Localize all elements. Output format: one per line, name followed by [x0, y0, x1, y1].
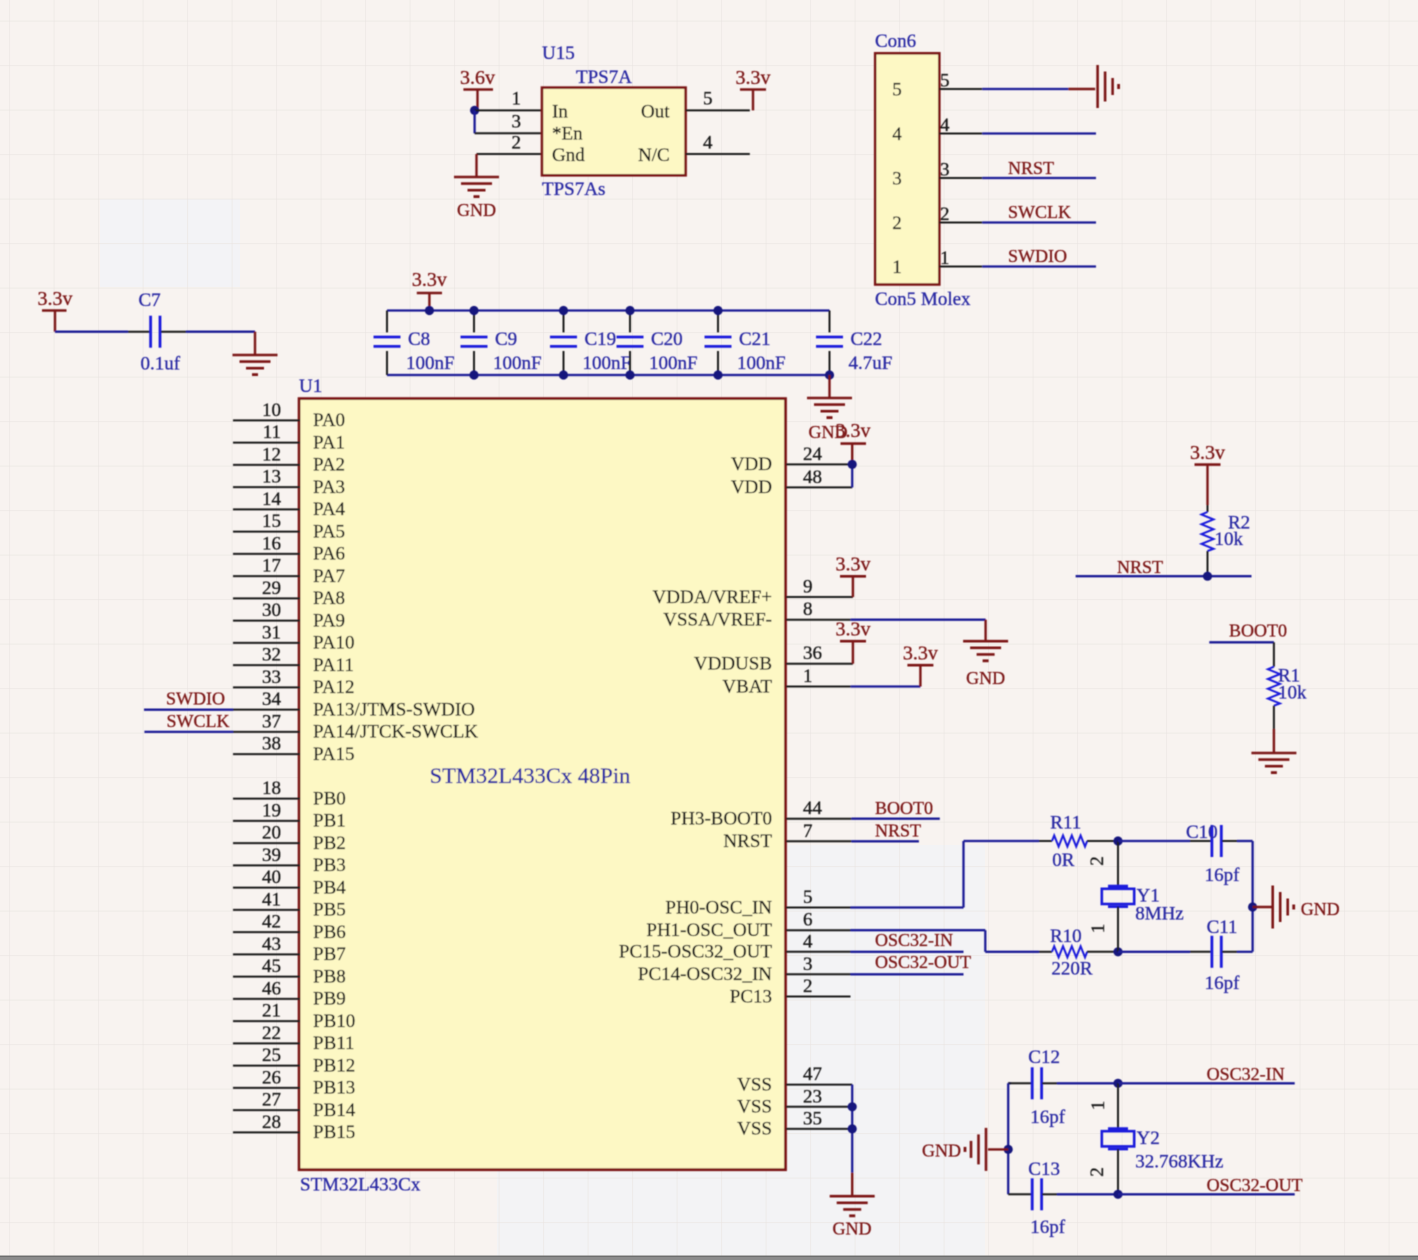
wire C10 C11 right vertical	[1251, 841, 1253, 952]
svg-text:PA4: PA4	[313, 499, 346, 520]
pin 35 VSS	[737, 1108, 852, 1139]
pin 3 PC14-OSC32_IN	[638, 954, 851, 985]
svg-text:VDD: VDD	[731, 454, 772, 475]
svg-text:VSSA/VREF-: VSSA/VREF-	[663, 610, 772, 631]
svg-text:GND: GND	[922, 1141, 961, 1161]
svg-text:16pf: 16pf	[1030, 1217, 1066, 1238]
junction VSS 35	[848, 1124, 857, 1133]
svg-text:NRST: NRST	[875, 821, 921, 841]
Con6 inner pin names	[892, 80, 902, 279]
svg-text:OSC32-IN: OSC32-IN	[1207, 1064, 1285, 1084]
svg-text:PC14-OSC32_IN: PC14-OSC32_IN	[638, 964, 772, 985]
wire node OSC32-IN Y2	[1118, 1064, 1295, 1084]
pin 23 VSS	[737, 1086, 852, 1117]
pin 12 PA2	[233, 444, 345, 475]
wire top rail	[387, 309, 830, 311]
svg-text:C7: C7	[139, 290, 161, 311]
pin 9 VDDA/VREF+	[653, 577, 853, 608]
ground earth Y1	[1273, 886, 1340, 929]
pin 7 NRST	[723, 821, 851, 852]
svg-text:C9: C9	[495, 329, 517, 350]
wire C12 C13 left vertical	[1007, 1083, 1009, 1194]
svg-text:18: 18	[262, 778, 281, 799]
capacitor C20 100nF	[617, 311, 698, 376]
svg-text:4: 4	[803, 931, 813, 952]
svg-text:PB12: PB12	[313, 1055, 355, 1076]
svg-text:NRST: NRST	[1117, 557, 1163, 577]
junction Y1 top	[1113, 836, 1122, 845]
svg-text:1: 1	[512, 89, 522, 110]
svg-text:6: 6	[803, 910, 813, 931]
svg-text:1: 1	[1088, 924, 1109, 934]
ground GND U15	[454, 177, 499, 220]
svg-text:24: 24	[803, 444, 823, 465]
svg-text:23: 23	[803, 1086, 822, 1107]
svg-text:PB8: PB8	[313, 966, 346, 987]
junction Y2 bottom	[1113, 1190, 1122, 1199]
svg-text:13: 13	[262, 467, 281, 488]
capacitor C12 16pf	[1008, 1047, 1118, 1128]
svg-text:PB11: PB11	[313, 1033, 355, 1054]
svg-text:PA0: PA0	[313, 410, 345, 431]
pin 11 PA1	[233, 422, 345, 453]
svg-text:VBAT: VBAT	[722, 676, 772, 697]
svg-text:SWCLK: SWCLK	[1008, 202, 1071, 222]
svg-text:PB10: PB10	[313, 1011, 355, 1032]
pin 32 PA11	[233, 645, 354, 676]
junction 3.6v node	[470, 106, 479, 115]
capacitor C7 0.1uf	[128, 290, 186, 375]
pin 14 PA4	[233, 489, 346, 520]
wire C22 to ground	[828, 375, 830, 398]
svg-text:PA13/JTMS-SWDIO: PA13/JTMS-SWDIO	[313, 699, 475, 720]
svg-text:3: 3	[803, 954, 813, 975]
svg-text:PA6: PA6	[313, 544, 345, 565]
svg-text:In: In	[552, 102, 568, 123]
svg-text:1: 1	[892, 257, 902, 278]
wire C7 left	[55, 331, 128, 333]
svg-text:GND: GND	[833, 1219, 872, 1239]
power 3.3v VDDUSB	[836, 619, 871, 664]
svg-text:21: 21	[262, 1001, 281, 1022]
pin 28 PB15	[233, 1112, 355, 1143]
wire node BOOT0 pin44	[851, 798, 939, 819]
svg-text:11: 11	[263, 422, 281, 443]
svg-text:3.3v: 3.3v	[836, 420, 871, 442]
svg-text:PB0: PB0	[313, 788, 346, 809]
svg-text:10k: 10k	[1215, 529, 1244, 550]
svg-text:100nF: 100nF	[737, 353, 786, 374]
capacitor C19 100nF	[550, 311, 631, 376]
svg-text:PC13: PC13	[730, 986, 772, 1007]
svg-text:C10: C10	[1186, 822, 1218, 843]
svg-text:PB7: PB7	[313, 944, 346, 965]
svg-text:BOOT0: BOOT0	[875, 798, 933, 818]
ground VSSA	[963, 641, 1008, 688]
svg-text:2: 2	[1087, 1167, 1108, 1177]
svg-text:PA14/JTCK-SWCLK: PA14/JTCK-SWCLK	[313, 722, 478, 743]
svg-text:220R: 220R	[1051, 959, 1093, 980]
ground decap bank	[807, 398, 852, 442]
svg-text:VSS: VSS	[737, 1119, 772, 1140]
svg-text:STM32L433Cx 48Pin: STM32L433Cx 48Pin	[430, 763, 631, 788]
power 3.3v VDDA	[836, 554, 871, 598]
svg-text:C22: C22	[851, 329, 883, 350]
svg-text:C21: C21	[739, 329, 771, 350]
svg-text:32: 32	[262, 645, 281, 666]
pin 46 PB9	[233, 978, 346, 1009]
resistor R2 10k	[1202, 505, 1251, 576]
wire node SWDIO to PA13	[144, 689, 233, 710]
svg-text:GND: GND	[966, 668, 1005, 688]
pin 44 PH3-BOOT0	[671, 798, 852, 829]
svg-text:*En: *En	[552, 124, 583, 145]
wire C7 right	[186, 332, 255, 355]
svg-text:4: 4	[892, 124, 902, 145]
svg-text:PA3: PA3	[313, 477, 345, 498]
pin 37 PA14	[233, 711, 478, 742]
connector Con6 body	[875, 31, 971, 310]
ground C7	[233, 355, 278, 375]
pin 40 PB4	[233, 867, 346, 898]
ground R1	[1251, 753, 1296, 773]
svg-text:PB15: PB15	[313, 1122, 355, 1143]
svg-text:44: 44	[803, 798, 823, 819]
svg-text:4.7uF: 4.7uF	[849, 353, 893, 374]
svg-text:PA5: PA5	[313, 521, 345, 542]
svg-text:43: 43	[262, 934, 281, 955]
junction VSS 23	[848, 1102, 857, 1111]
pin 5 PH0-OSC_IN	[665, 887, 850, 918]
svg-text:PA9: PA9	[313, 610, 345, 631]
power 3.6v	[460, 67, 495, 110]
pin 4 PC15-OSC32_OUT	[619, 931, 851, 962]
svg-text:100nF: 100nF	[493, 353, 542, 374]
svg-text:VSS: VSS	[737, 1097, 772, 1118]
wire node BOOT0 net	[1209, 621, 1287, 643]
svg-text:PB14: PB14	[313, 1100, 356, 1121]
svg-text:29: 29	[262, 578, 281, 599]
capacitor C11 16pf	[1118, 917, 1253, 994]
svg-text:25: 25	[262, 1045, 281, 1066]
svg-text:1: 1	[1088, 1101, 1109, 1111]
capacitor C9 100nF	[461, 311, 542, 376]
svg-text:SWDIO: SWDIO	[1008, 246, 1067, 266]
wire bottom rail	[387, 374, 830, 376]
svg-text:STM32L433Cx: STM32L433Cx	[300, 1175, 421, 1196]
svg-text:3.6v: 3.6v	[460, 67, 495, 89]
svg-text:27: 27	[262, 1090, 281, 1111]
svg-text:VSS: VSS	[737, 1074, 772, 1095]
crystal Y2 32.768KHz	[1102, 1083, 1224, 1194]
svg-text:3: 3	[892, 169, 902, 190]
svg-text:9: 9	[803, 577, 813, 598]
junction Y1 bottom	[1113, 947, 1122, 956]
pin 22 PB11	[233, 1023, 355, 1054]
crystal Y1 8MHz	[1102, 841, 1184, 952]
pin 10 PA0	[233, 400, 345, 431]
svg-text:PA1: PA1	[313, 432, 345, 453]
pin 31 PA10	[233, 622, 355, 653]
svg-text:SWCLK: SWCLK	[167, 711, 230, 731]
svg-text:Con6: Con6	[875, 31, 916, 52]
svg-text:Con5 Molex: Con5 Molex	[875, 289, 971, 310]
pin 42 PB6	[233, 912, 346, 943]
svg-text:GND: GND	[1301, 899, 1340, 919]
svg-text:5: 5	[892, 80, 902, 101]
svg-text:N/C: N/C	[638, 145, 670, 166]
wire node NRST Con6 pin3	[939, 158, 1096, 178]
svg-text:16pf: 16pf	[1205, 973, 1241, 994]
svg-text:100nF: 100nF	[406, 353, 455, 374]
pin 25 PB12	[233, 1045, 355, 1076]
svg-text:TPS7As: TPS7As	[542, 179, 605, 200]
svg-text:100nF: 100nF	[583, 353, 632, 374]
wire node SWCLK Con6 pin2	[939, 202, 1096, 223]
svg-text:PC15-OSC32_OUT: PC15-OSC32_OUT	[619, 942, 772, 963]
pin 36 VDDUSB	[694, 643, 853, 674]
wire node OSC32-OUT pin3	[851, 952, 972, 974]
svg-text:30: 30	[262, 600, 281, 621]
svg-text:16: 16	[262, 533, 281, 554]
svg-text:PA12: PA12	[313, 677, 355, 698]
svg-text:45: 45	[262, 956, 281, 977]
svg-text:0R: 0R	[1052, 850, 1075, 871]
power 3.3v VBAT	[903, 643, 938, 687]
capacitor C10 16pf	[1118, 822, 1253, 886]
svg-text:PH1-OSC_OUT: PH1-OSC_OUT	[646, 920, 772, 941]
pin 27 PB14	[233, 1090, 356, 1121]
svg-text:28: 28	[262, 1112, 281, 1133]
svg-text:32.768KHz: 32.768KHz	[1135, 1152, 1223, 1173]
window edge strip	[0, 1256, 1418, 1260]
resistor R10 220R	[1039, 926, 1118, 980]
svg-text:3.3v: 3.3v	[412, 269, 447, 291]
svg-text:TPS7A: TPS7A	[576, 67, 632, 88]
svg-text:VDDA/VREF+: VDDA/VREF+	[653, 587, 772, 608]
svg-text:OSC32-IN: OSC32-IN	[875, 930, 953, 950]
capacitor C13 16pf	[1008, 1159, 1118, 1238]
ground earth Con6 pin5	[1098, 65, 1119, 108]
pin 24 VDD	[731, 444, 852, 475]
svg-text:40: 40	[262, 867, 281, 888]
power 3.3v R2	[1190, 442, 1225, 505]
svg-text:C20: C20	[651, 329, 683, 350]
svg-text:17: 17	[262, 556, 281, 577]
pin 21 PB10	[233, 1001, 355, 1032]
pin 43 PB7	[233, 934, 346, 965]
svg-text:48: 48	[803, 467, 822, 488]
svg-text:38: 38	[262, 734, 281, 755]
svg-text:22: 22	[262, 1023, 281, 1044]
svg-text:15: 15	[262, 511, 281, 532]
svg-text:3.3v: 3.3v	[836, 554, 871, 576]
wire VSS vertical to ground	[851, 1085, 853, 1196]
pin 6 PH1-OSC_OUT	[646, 910, 850, 941]
svg-text:C11: C11	[1207, 917, 1238, 938]
svg-text:Gnd: Gnd	[552, 145, 585, 166]
U15 pin numbers 1 3 2 5 4	[512, 89, 714, 154]
pin 41 PB5	[233, 889, 346, 920]
Con6 pin numbers	[940, 71, 950, 270]
svg-text:20: 20	[262, 823, 281, 844]
svg-text:C13: C13	[1028, 1159, 1060, 1180]
svg-text:PB1: PB1	[313, 811, 346, 832]
svg-text:7: 7	[803, 821, 813, 842]
capacitor C21 100nF	[705, 311, 786, 376]
svg-text:10k: 10k	[1278, 683, 1307, 704]
svg-text:U1: U1	[299, 376, 322, 397]
wire Con6 pin5 to ground	[939, 88, 1095, 90]
svg-text:12: 12	[262, 444, 281, 465]
svg-text:39: 39	[262, 845, 281, 866]
pin 45 PB8	[233, 956, 346, 987]
svg-text:31: 31	[262, 622, 281, 643]
svg-text:PB13: PB13	[313, 1078, 355, 1099]
wire pin6 to R10	[851, 930, 1040, 952]
wire node SWDIO Con6 pin1	[939, 246, 1096, 267]
junction dots bottom rail	[469, 370, 834, 379]
svg-text:46: 46	[262, 978, 281, 999]
pin 2 PC13	[730, 976, 851, 1007]
pin 29 PA8	[233, 578, 345, 609]
svg-text:PB4: PB4	[313, 877, 346, 898]
junction NRST R2	[1203, 572, 1212, 581]
pin 48 VDD	[731, 467, 852, 498]
svg-text:PA2: PA2	[313, 455, 345, 476]
svg-text:PB2: PB2	[313, 833, 346, 854]
svg-text:Out: Out	[641, 102, 670, 123]
svg-text:NRST: NRST	[1008, 158, 1054, 178]
wire VSSA to ground	[851, 620, 986, 642]
svg-text:36: 36	[803, 643, 822, 664]
ground earth Y2	[922, 1128, 986, 1171]
svg-text:47: 47	[803, 1064, 822, 1085]
svg-text:VDD: VDD	[731, 477, 772, 498]
pin 20 PB2	[233, 823, 346, 854]
pin 15 PA5	[233, 511, 345, 542]
pin 18 PB0	[233, 778, 346, 809]
wire 3.6v to En	[475, 110, 542, 133]
svg-text:5: 5	[803, 887, 813, 908]
svg-text:100nF: 100nF	[649, 353, 698, 374]
svg-text:8MHz: 8MHz	[1135, 904, 1184, 925]
wire VBAT	[851, 685, 921, 687]
IC U15 TPS7A body	[542, 43, 686, 200]
pin 13 PA3	[233, 467, 345, 498]
resistor R11 0R	[1039, 813, 1118, 872]
U15 pin labels	[552, 102, 670, 167]
svg-text:33: 33	[262, 667, 281, 688]
pin 38 PA15	[233, 734, 355, 765]
svg-text:41: 41	[262, 889, 281, 910]
svg-text:OSC32-OUT: OSC32-OUT	[875, 952, 971, 972]
svg-text:PA11: PA11	[313, 655, 354, 676]
svg-text:3.3v: 3.3v	[836, 619, 871, 641]
wire U15 pin2 to ground	[477, 154, 543, 176]
wire node NRST net	[1076, 557, 1252, 577]
pin 26 PB13	[233, 1067, 355, 1098]
pin 33 PA12	[233, 667, 355, 698]
svg-text:PB9: PB9	[313, 989, 346, 1010]
svg-text:3.3v: 3.3v	[1190, 442, 1225, 464]
wire U15 pin1	[475, 109, 542, 111]
svg-text:3: 3	[512, 112, 522, 133]
pin 16 PA6	[233, 533, 345, 564]
svg-text:42: 42	[262, 912, 281, 933]
pin 39 PB3	[233, 845, 346, 876]
wire node OSC32-IN pin4	[851, 930, 964, 952]
svg-text:VDDUSB: VDDUSB	[694, 654, 772, 675]
junction GND Y2	[1004, 1145, 1013, 1154]
svg-text:GND: GND	[457, 200, 496, 220]
svg-text:BOOT0: BOOT0	[1229, 621, 1287, 641]
svg-text:8: 8	[803, 599, 813, 620]
svg-text:PB5: PB5	[313, 900, 346, 921]
svg-text:4: 4	[703, 133, 713, 154]
svg-text:35: 35	[803, 1108, 822, 1129]
svg-text:C8: C8	[408, 329, 430, 350]
svg-text:R10: R10	[1050, 926, 1082, 947]
power 3.3v U15 out	[736, 67, 771, 110]
svg-text:NRST: NRST	[723, 831, 772, 852]
wire U15 N/C pin4	[686, 153, 750, 155]
pin 34 PA13	[233, 689, 475, 720]
svg-text:37: 37	[262, 711, 281, 732]
capacitor C8 100nF	[374, 311, 455, 376]
svg-text:PA15: PA15	[313, 744, 355, 765]
power 3.3v rail decap bank	[412, 269, 447, 311]
capacitor C22 4.7uF	[816, 311, 892, 376]
pin 8 VSSA/VREF-	[663, 599, 850, 630]
svg-text:PA10: PA10	[313, 633, 355, 654]
svg-text:0.1uf: 0.1uf	[141, 354, 181, 375]
wire Con6 pin4	[939, 133, 1096, 135]
svg-text:SWDIO: SWDIO	[166, 689, 225, 709]
svg-text:2: 2	[803, 976, 813, 997]
svg-text:2: 2	[892, 213, 902, 234]
power 3.3v C7	[38, 288, 73, 332]
junction dots top rail	[425, 306, 723, 315]
wire to ground Y2	[988, 1148, 1008, 1150]
MCU U1 STM32L433Cx body	[299, 376, 786, 1196]
svg-text:3.3v: 3.3v	[38, 288, 73, 310]
wire pin5 to R11	[851, 841, 1040, 908]
svg-text:PB3: PB3	[313, 855, 346, 876]
junction Y2 top	[1113, 1079, 1122, 1088]
svg-text:OSC32-OUT: OSC32-OUT	[1207, 1175, 1303, 1195]
power 3.3v VDD	[836, 420, 871, 464]
svg-text:R11: R11	[1050, 813, 1081, 834]
wire node NRST pin7	[851, 821, 921, 842]
svg-text:26: 26	[262, 1067, 281, 1088]
wire node OSC32-OUT Y2	[1118, 1175, 1303, 1195]
svg-text:16pf: 16pf	[1030, 1107, 1066, 1128]
svg-text:PB6: PB6	[313, 922, 346, 943]
svg-text:1: 1	[803, 666, 813, 687]
svg-text:19: 19	[262, 800, 281, 821]
pin 19 PB1	[233, 800, 346, 831]
svg-text:PH3-BOOT0: PH3-BOOT0	[671, 809, 772, 830]
wire to ground Y1	[1253, 906, 1273, 908]
svg-text:16pf: 16pf	[1205, 865, 1241, 886]
pin 1 VBAT	[722, 666, 850, 697]
resistor R1 10k	[1268, 642, 1307, 752]
junction GND Y1	[1248, 902, 1257, 911]
wire node SWCLK to PA14	[144, 711, 233, 732]
svg-text:PA7: PA7	[313, 566, 345, 587]
svg-text:34: 34	[262, 689, 282, 710]
